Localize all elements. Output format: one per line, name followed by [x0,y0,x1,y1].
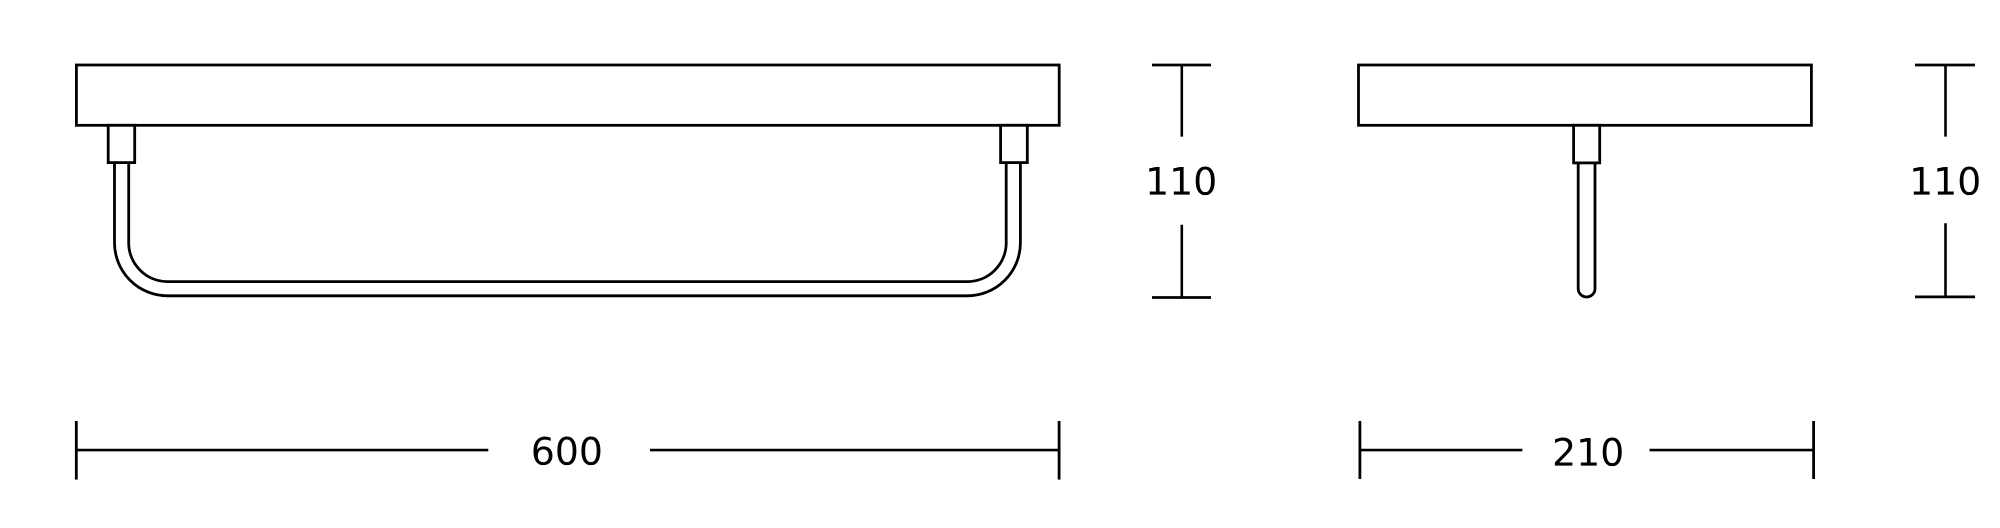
dimension 110 front: top tick [1152,64,1211,67]
shelf side view [1359,65,1812,125]
dimension 110 side: top tick [1915,64,1975,67]
dimension 110 side: lower extension line [1944,223,1947,297]
dimension 210: left tick [1359,421,1362,479]
dimension text 210 (shelf depth) [1555,438,1622,467]
mounting block side view [1574,125,1600,163]
left mounting block front view [108,125,135,162]
dimension 110 front: upper extension line [1181,65,1184,137]
dimension 110 front: lower extension line [1181,225,1184,298]
dimension text 110 (front view height) [1149,167,1214,196]
dimension 110 front: bottom tick [1152,296,1211,299]
towel bar front view (tube outline) [122,158,1014,289]
dimension 600: left tick [75,421,78,480]
dimension 600: left line segment [76,449,488,452]
dimension 600: right line segment [650,449,1059,452]
dimension 210: right line segment [1650,449,1814,452]
right mounting block front view [1001,125,1028,162]
shelf front view [76,65,1059,125]
dimension 600: right tick [1058,421,1061,480]
towel bar side view (rod with rounded end) [1578,163,1595,297]
dimension text 110 (side view height) [1913,167,1978,196]
dimension 110 side: upper extension line [1944,65,1947,137]
dimension 210: right tick [1812,421,1815,479]
dimension text 600 (shelf width) [533,437,600,466]
dimension 210: left line segment [1360,449,1523,452]
dimension 110 side: bottom tick [1915,295,1975,298]
